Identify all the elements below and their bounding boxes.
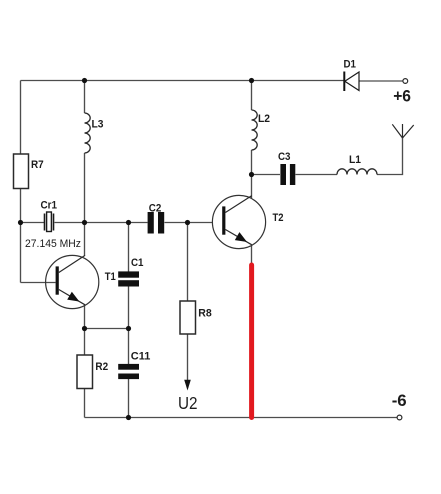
capacitor C2: [148, 212, 165, 234]
svg-text:L3: L3: [92, 119, 104, 131]
wire L3 top lead: [84, 81, 86, 114]
svg-text:Cr1: Cr1: [41, 200, 58, 212]
wire R8 top lead: [187, 223, 189, 302]
arrow U2 output: [184, 380, 191, 391]
wire bottom rail: [85, 417, 398, 419]
svg-text:R2: R2: [95, 361, 108, 373]
wire L3 bottom lead to T1 collector: [84, 153, 86, 256]
wire emitter node to C node: [85, 328, 129, 330]
junction node top L2: [249, 78, 254, 83]
inductor L3: [85, 113, 91, 153]
svg-text:C11: C11: [131, 351, 151, 363]
wire crystal row left: [21, 222, 45, 224]
wire top rail: [21, 80, 344, 82]
svg-text:R8: R8: [198, 308, 212, 320]
wire crystal to C2: [55, 222, 148, 224]
wire left vertical top: [20, 81, 22, 155]
wire C1 top lead: [128, 223, 130, 272]
svg-text:L2: L2: [258, 113, 270, 125]
svg-text:R7: R7: [31, 159, 44, 171]
junction node top L3: [82, 78, 87, 83]
capacitor C3: [280, 164, 295, 185]
svg-text:L1: L1: [349, 154, 361, 166]
resistor R2: [77, 355, 93, 389]
antenna: [392, 124, 413, 138]
junction node crystal left: [18, 220, 23, 225]
svg-text:T1: T1: [105, 271, 116, 283]
svg-text:C2: C2: [149, 202, 162, 214]
wire L2 bottom lead: [251, 150, 253, 175]
terminal -6: [397, 415, 402, 420]
wire left vertical mid: [20, 189, 22, 283]
wire C11 bottom lead: [128, 379, 130, 418]
resistor R7: [14, 154, 29, 189]
wire C3 to L1: [296, 174, 338, 176]
svg-text:C3: C3: [278, 151, 291, 163]
wire C1 to C11: [128, 287, 130, 365]
wire T1 emitter to node: [84, 305, 86, 329]
inductor L2: [252, 110, 258, 150]
junction node C1 bottom: [126, 326, 131, 331]
junction node emitter: [82, 326, 87, 331]
wire L2 top lead: [251, 81, 253, 111]
wire R2 top lead: [84, 329, 86, 356]
wire L1 to antenna corner: [377, 138, 403, 175]
junction node R8 top: [185, 220, 190, 225]
junction node C1 top: [126, 220, 131, 225]
transistor T2: [212, 195, 265, 248]
wire T1 base: [21, 282, 56, 284]
svg-text:+6: +6: [393, 86, 411, 105]
junction node L2 bottom: [249, 172, 254, 177]
wire C2 to T2 base: [165, 222, 213, 224]
capacitor C11: [118, 364, 139, 379]
wire T2 emitter stub: [251, 246, 253, 265]
wire R8 to arrow: [187, 334, 189, 383]
diode D1: [344, 72, 359, 92]
junction node crystal right: [82, 220, 87, 225]
resistor R8: [180, 301, 196, 334]
wire R2 bottom lead: [84, 389, 86, 418]
svg-text:27.145 MHz: 27.145 MHz: [25, 238, 81, 250]
capacitor C1: [118, 271, 139, 286]
wire node to C3: [252, 174, 281, 176]
svg-text:-6: -6: [392, 391, 407, 410]
crystal Cr1: [45, 212, 54, 232]
wire diode to +6 terminal: [360, 80, 403, 82]
junction node bottom rail: [126, 415, 131, 420]
inductor L1: [337, 169, 377, 175]
wire T2 collector: [251, 175, 253, 199]
transistor T1: [46, 255, 99, 308]
svg-text:D1: D1: [344, 59, 357, 71]
red emitter lead: [249, 265, 254, 418]
svg-text:U2: U2: [178, 393, 198, 413]
terminal +6: [403, 79, 408, 84]
svg-text:T2: T2: [273, 212, 284, 224]
svg-text:C1: C1: [131, 257, 144, 269]
